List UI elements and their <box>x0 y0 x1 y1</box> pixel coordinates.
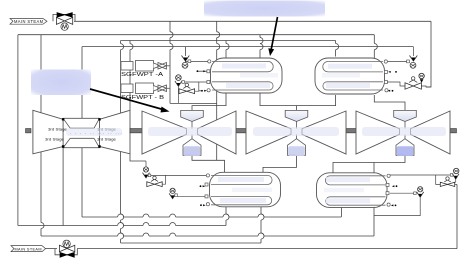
wire: right-bottom riser x=456.5 <box>456 184 458 248</box>
wire: LP1 chest to center <box>191 122 193 129</box>
wire: LP3 chest to center <box>404 122 406 129</box>
valve g2 (MSR-C left drain lower) <box>169 188 205 199</box>
turbine LP2 left section <box>246 111 291 154</box>
pump turbine SGFWPT-B <box>121 83 170 94</box>
blurred label box left <box>31 70 91 96</box>
blurred band HP center <box>66 128 122 136</box>
wire: MSR-C bottom stub right <box>261 207 264 243</box>
wire: MSR-B right to LP3 crossover <box>374 95 405 110</box>
turbine LP2 right section <box>302 111 346 154</box>
wire: bus line y=40.5 <box>121 40 336 42</box>
wire: MSR-A top stub left x=226 <box>226 41 229 59</box>
valve B (MSR-B right lower) <box>387 73 431 89</box>
wire: vertical x=44 extraction to HP inlet <box>40 35 42 113</box>
wire: pump box left vertical x=120.6 <box>121 41 124 244</box>
valve bottom main (open) <box>59 245 74 252</box>
actuator motor circle top <box>61 23 68 30</box>
wire: bus line y=46.6 <box>82 46 413 48</box>
turbine LP3 left section <box>356 111 400 154</box>
main steam flag top <box>10 19 47 25</box>
arrow 1 (top label to MSR-A) <box>271 17 277 49</box>
wire: MSR-B top stub left x=335.6 <box>336 41 339 57</box>
wire: hopped vertical x=216.7 pump box right <box>217 21 220 160</box>
wire: MSR-A to LP1 crossover <box>192 93 226 110</box>
turbine HP lower diaphragm trapezoid <box>63 138 99 147</box>
wire: HP right riser x=130 <box>130 41 133 111</box>
LP3 exhaust hood pentagon <box>396 139 414 156</box>
wire: hopped vertical x=170 <box>170 21 173 103</box>
blurred band LP1 center <box>148 127 232 136</box>
valve MSIV main (open) <box>56 17 72 24</box>
turbine HP right section <box>100 110 131 154</box>
wire: bottom bus y=225.5 <box>18 223 226 226</box>
svg-text:·· ···: ·· ··· <box>185 152 191 156</box>
turbine LP3 right section <box>411 111 451 154</box>
wire: LP3 exhaust to MSR-D <box>333 155 405 172</box>
svg-text:SGFWPT -A: SGFWPT -A <box>121 72 164 78</box>
shaft segment LP1-LP2 <box>236 129 246 133</box>
wire: LP1 center to exhaust <box>191 135 193 139</box>
valve A (MSR-B right upper) <box>388 47 418 69</box>
main steam flag bottom <box>11 246 46 252</box>
svg-text:MAIN STEAM: MAIN STEAM <box>14 19 44 24</box>
wire: MSR-A to LP2 crossover <box>260 93 297 110</box>
LP2 blurred label box <box>288 146 305 156</box>
arrow 2 (left label to LP1) <box>90 89 163 110</box>
wire: LP1 exhaust to MSR-C <box>192 155 225 172</box>
wire: HP turbine center riser x=82 <box>81 47 83 119</box>
vessel MSR-C (bottom left) <box>200 172 281 207</box>
valve v2 (MSR-A second stage) <box>175 75 207 104</box>
wire: MSR-C bottom stub left <box>226 207 229 226</box>
wire: top main steam line y=21.3 <box>74 20 431 22</box>
wire: flag to valve bottom <box>46 248 58 250</box>
valve v1 (MSR-A heating steam) <box>182 56 191 69</box>
wire: v1 feed from bus to MSR-A nozzle1 <box>184 47 186 56</box>
turbine HP left section <box>33 110 63 154</box>
wire: MSR-D bottom stub right <box>373 207 375 236</box>
wire: LP2 exhaust to MSR-C <box>263 155 297 172</box>
wire: MSR-D bottom stub left <box>340 207 342 217</box>
vessel MSR-D (bottom right) <box>317 173 398 208</box>
svg-text:MAIN STEAM: MAIN STEAM <box>15 247 42 251</box>
wire: HP rect-left downcomer x=63 <box>62 148 64 226</box>
svg-text:3rd Stage: 3rd Stage <box>48 127 68 132</box>
pump turbine SGFWPT-A <box>121 61 170 72</box>
blurred band LP3 center <box>362 127 446 136</box>
svg-text:·· ···: ·· ··· <box>290 152 296 156</box>
vessel MSR-B (top right) <box>315 58 397 94</box>
wire: LP3 center to exhaust <box>404 135 406 139</box>
valve g1 (MSR-C left drain upper) <box>143 161 207 187</box>
shaft segment left of HP <box>26 129 32 133</box>
wire: HP center downcomer x=82 <box>81 148 83 217</box>
wire: MSR-B top stub right x=374.3 <box>374 35 377 58</box>
valve g4 (MSR-D relief to right) <box>390 168 459 186</box>
bypass bracket bottom <box>55 249 77 255</box>
valve MSIV bypass (filled) <box>57 13 72 18</box>
wire: bottom bus y=243 <box>121 242 261 244</box>
shaft segment right of LP3 <box>450 129 457 133</box>
LP2 exhaust hood pentagon <box>288 139 306 156</box>
turbine LP1 <box>142 110 236 156</box>
wire: MSR-A nozzle4 tap with dot <box>199 90 202 92</box>
wire: LP2 chest to center <box>296 122 298 129</box>
shaft segment HP-LP1 <box>130 129 142 133</box>
blurred band LP2 center <box>253 127 339 136</box>
bypass bracket top valve <box>53 14 75 21</box>
vessel MSR-A (top left) <box>197 58 283 93</box>
wire: right riser from main steam to MSR-B relief valves <box>426 21 431 87</box>
wire: HP left slope downcomer x=41 <box>41 152 44 236</box>
actuator motor circle bottom <box>63 240 70 247</box>
wire: under-valve horizontal y=103.4 <box>170 102 217 104</box>
LP2 steam chest pentagon <box>285 110 308 121</box>
wire: LP2 center to exhaust <box>296 135 298 139</box>
LP3 blurred label box <box>397 146 414 156</box>
blurred label box top <box>204 1 325 17</box>
wire: MSR-D left top stub <box>373 163 375 173</box>
wire: left boundary vertical <box>17 35 19 226</box>
LP1 steam chest pentagon <box>181 110 204 121</box>
shaft segment LP2-LP3 <box>346 129 356 133</box>
wire: MSR-A top stub right x=260 <box>260 35 263 58</box>
LP1 blurred label box <box>184 146 201 156</box>
turbine LP2 <box>246 110 346 156</box>
turbine LP1 left section <box>142 111 187 154</box>
wire: bottom bus y=236 <box>41 233 374 236</box>
LP1 exhaust hood pentagon <box>183 139 201 156</box>
wire: HP right downcomer x=130 <box>130 154 146 161</box>
tap arrowheads <box>203 70 206 72</box>
wire: bus line y=34.7 <box>18 34 374 36</box>
svg-text:··· ··: ··· ·· <box>398 152 404 156</box>
svg-text:3rd Stage: 3rd Stage <box>45 137 65 142</box>
HP corner dots <box>62 118 101 148</box>
LP3 steam chest pentagon <box>394 110 417 121</box>
wire: MSR-B left to LP2 header <box>297 95 336 106</box>
turbine HP upper diaphragm trapezoid <box>63 118 99 128</box>
svg-text:3rd Stage: 3rd Stage <box>97 137 117 142</box>
valve g3 (MSR-D right drain) <box>374 187 424 216</box>
turbine LP3 <box>356 110 450 156</box>
valve bottom bypass (filled) <box>60 252 74 257</box>
turbine LP1 right section <box>198 111 237 154</box>
wire: bottom main steam line y=248.6 <box>77 248 457 250</box>
wire: bottom bus y=217 <box>82 214 341 217</box>
wire: MSR-A nozzle2 tap with dot <box>197 70 210 72</box>
